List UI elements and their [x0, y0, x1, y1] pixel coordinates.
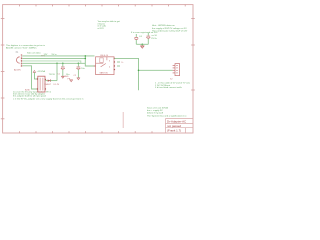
svg-text:Dr-Adapter-AC: Dr-Adapter-AC: [167, 119, 186, 123]
svg-text:us 10: us 10: [152, 35, 158, 37]
fold mark line: [122, 112, 124, 128]
title block: [166, 119, 194, 134]
wire net5 to TR1: [22, 66, 37, 89]
ground mid: [70, 80, 73, 82]
wire net3: [22, 61, 81, 63]
connector X2: [170, 64, 180, 81]
connector X1: [16, 52, 23, 66]
svg-text:+12V/5A: +12V/5A: [37, 70, 46, 73]
svg-text:of 12V: of 12V: [98, 28, 105, 30]
svg-text:AV-DIN: AV-DIN: [14, 68, 21, 71]
wire net2: [22, 57, 85, 59]
svg-text:before if my wolf: before if my wolf: [147, 112, 163, 115]
svg-text:If in case registered on 5Vs: If in case registered on 5Vs: [131, 31, 158, 34]
svg-text:AV-DIN connect "front" 10MHzs: AV-DIN connect "front" 10MHzs: [6, 47, 37, 50]
pin stub K1 out b: [117, 65, 120, 67]
capacitor C1: [58, 63, 71, 76]
wire diode to net4: [56, 63, 58, 80]
svg-text:C5 2u: C5 2u: [151, 38, 158, 40]
capacitor C5: [146, 33, 157, 45]
ground for C2: [77, 78, 80, 80]
svg-text:3 b fuse fitted connect wells: 3 b fuse fitted connect wells: [155, 86, 183, 89]
wire K1 to X2: [114, 58, 138, 90]
wire net4: [22, 62, 85, 64]
svg-text:v 2: the 9V DC-adapter set a n: v 2: the 9V DC-adapter set a new supply …: [13, 98, 84, 101]
capacitor C4: [134, 34, 142, 44]
capacitor C2: [74, 63, 86, 77]
svg-text:D1 4V: D1 4V: [54, 84, 60, 86]
svg-text:SANYOU: SANYOU: [100, 72, 109, 75]
junction: [138, 70, 140, 72]
supply +12V: [33, 70, 45, 79]
svg-text:(Frank 1.7): (Frank 1.7): [167, 128, 181, 132]
ground for C1: [61, 76, 64, 78]
frame border: [3, 5, 193, 133]
svg-text:Sub coil video: Sub coil video: [27, 52, 41, 54]
svg-text:Hint - LM7805 datas an: Hint - LM7805 datas an: [152, 24, 176, 27]
junction dots: [85, 55, 87, 57]
svg-text:The Tapester bus and a signifi: The Tapester bus and a signification (1 …: [147, 115, 187, 118]
svg-text:this adapter built for all inp: this adapter built for all input good: [13, 95, 47, 98]
transformer TR1: [25, 74, 56, 92]
wire vertical to K1: [85, 56, 95, 66]
svg-text:G5LE-14: G5LE-14: [100, 55, 109, 57]
svg-text:1N4007: 1N4007: [44, 84, 52, 86]
pin stub K1 out a: [117, 61, 120, 63]
wire caps common: [136, 43, 148, 45]
relay K1: [94, 55, 116, 74]
svg-text:not passed: not passed: [167, 124, 182, 128]
svg-text:Save a DC out 5V/2A: Save a DC out 5V/2A: [147, 106, 168, 109]
wire net1: [22, 55, 94, 57]
ground caps: [140, 46, 144, 48]
svg-text:TR 5V: TR 5V: [49, 74, 56, 76]
diode D1: [44, 79, 60, 86]
